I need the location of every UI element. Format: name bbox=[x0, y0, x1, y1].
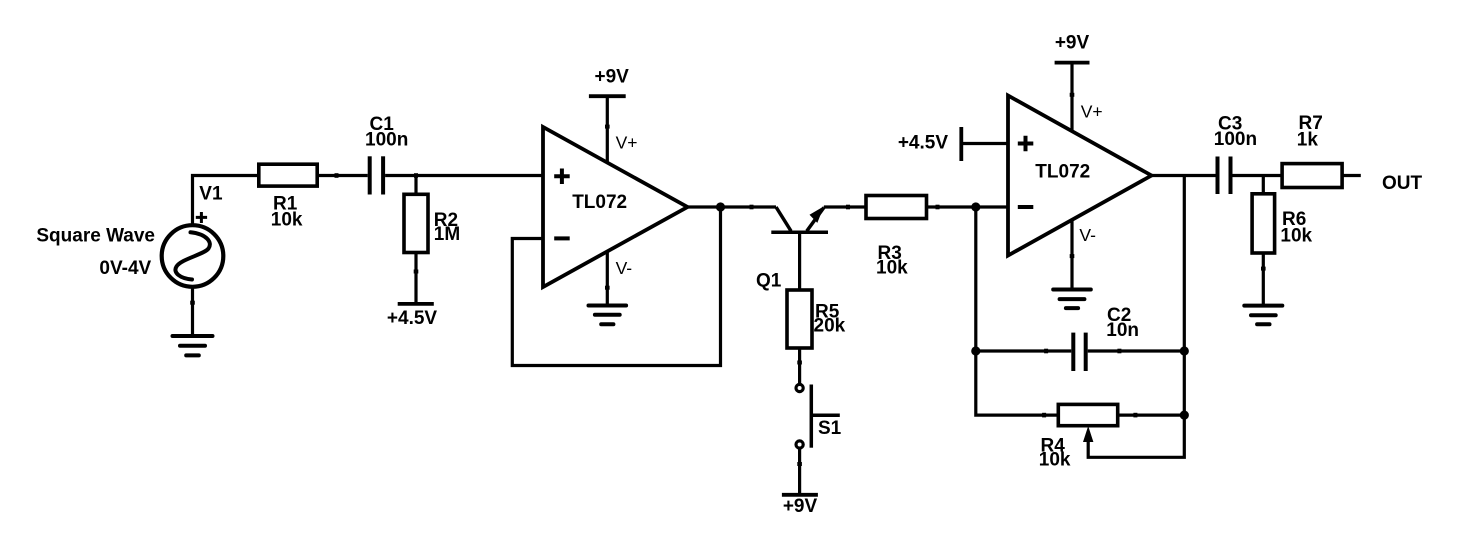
svg-text:S1: S1 bbox=[818, 418, 842, 439]
wire S1 to +9V bbox=[798, 448, 801, 495]
node U1 output junction bbox=[716, 202, 725, 211]
wire R7 to OUT bbox=[1342, 174, 1361, 177]
plus polarity mark of V1 bbox=[196, 212, 207, 223]
node C2 right junction bbox=[1180, 346, 1189, 355]
svg-text:+4.5V: +4.5V bbox=[898, 133, 949, 154]
ground under R6 bbox=[1244, 306, 1282, 325]
svg-text:Square Wave: Square Wave bbox=[36, 226, 155, 247]
ground under U1 bbox=[589, 306, 627, 325]
sine wave glyph inside V1 bbox=[175, 232, 209, 279]
capacitor C2 bbox=[1073, 333, 1085, 371]
feedback wire U1 output to minus input bbox=[512, 207, 720, 366]
svg-text:Q1: Q1 bbox=[756, 271, 782, 292]
wire U2 output to C3 bbox=[1152, 174, 1218, 177]
wire U2 minus node down the feedback column bbox=[976, 207, 1059, 415]
node C2 left junction bbox=[971, 346, 980, 355]
resistor R6 bbox=[1262, 176, 1265, 194]
svg-text:TL072: TL072 bbox=[1035, 162, 1090, 183]
resistor R5 bbox=[787, 290, 812, 348]
op-amp U2 TL072 bbox=[1008, 96, 1152, 256]
capacitor C1 bbox=[370, 156, 383, 194]
wire Q1 emitter to R3 bbox=[824, 205, 866, 208]
supply +4.5V at U2 plus input bbox=[959, 127, 963, 161]
wire V1 top to R1 bbox=[193, 176, 259, 226]
wire C3 to R7 bbox=[1233, 174, 1283, 177]
wire R3 to U2 minus input bbox=[927, 205, 1009, 208]
wire U1 V- to ground bbox=[606, 251, 609, 305]
U1 plus input mark bbox=[554, 169, 570, 185]
svg-text:10k: 10k bbox=[271, 210, 303, 231]
source V1 bbox=[162, 225, 224, 287]
svg-text:100n: 100n bbox=[365, 130, 408, 151]
svg-text:1k: 1k bbox=[1297, 130, 1319, 151]
svg-text:TL072: TL072 bbox=[572, 192, 627, 213]
wire U1 output bbox=[688, 205, 777, 208]
U1 minus input mark bbox=[554, 236, 570, 240]
svg-text:V-: V- bbox=[616, 258, 633, 278]
wire C1 to op-amp U1 plus input bbox=[385, 174, 543, 177]
resistor R1 bbox=[259, 164, 317, 186]
svg-text:OUT: OUT bbox=[1382, 173, 1423, 194]
svg-text:V-: V- bbox=[1079, 225, 1096, 245]
wire C2 branch bbox=[976, 349, 1185, 352]
svg-text:10k: 10k bbox=[1039, 450, 1071, 471]
svg-text:1M: 1M bbox=[434, 224, 460, 245]
svg-text:+9V: +9V bbox=[783, 496, 818, 517]
svg-text:+9V: +9V bbox=[595, 67, 630, 88]
svg-text:20k: 20k bbox=[814, 316, 846, 337]
wire V1 bottom to ground bbox=[191, 287, 194, 337]
ground under V1 bbox=[173, 336, 213, 355]
wire R2 to +4.5V bbox=[414, 253, 417, 304]
svg-text:+9V: +9V bbox=[1055, 32, 1090, 53]
wire U2 V- to ground bbox=[1070, 220, 1073, 290]
svg-text:+4.5V: +4.5V bbox=[387, 308, 438, 329]
resistor R3 bbox=[866, 196, 927, 219]
op-amp U1 TL072 bbox=[543, 127, 688, 287]
supply +4.5V under R2 bbox=[398, 302, 434, 306]
ground under U2 bbox=[1053, 290, 1091, 309]
transistor Q1 bbox=[771, 207, 828, 232]
potentiometer R4 bbox=[1058, 404, 1117, 425]
svg-text:10k: 10k bbox=[876, 258, 908, 279]
U2 plus input mark bbox=[1018, 136, 1034, 152]
resistor R7 bbox=[1282, 164, 1342, 188]
svg-text:100n: 100n bbox=[1214, 129, 1257, 150]
wire R1 to C1 bbox=[317, 174, 368, 177]
wire R6 to ground bbox=[1262, 253, 1265, 306]
capacitor C3 bbox=[1218, 157, 1231, 195]
wire U2 output feedback column right bbox=[1183, 176, 1186, 416]
supply +9V above U1 bbox=[606, 96, 609, 162]
svg-text:V+: V+ bbox=[1081, 101, 1103, 121]
switch S1 bbox=[796, 384, 803, 391]
svg-text:V1: V1 bbox=[199, 184, 223, 205]
wire Q1 base down to R5 bbox=[798, 232, 801, 290]
wire R5 to S1 bbox=[798, 348, 801, 384]
pin tick marks on wires bbox=[193, 93, 1264, 466]
U2 minus input mark bbox=[1018, 205, 1034, 209]
svg-text:10k: 10k bbox=[1280, 225, 1312, 246]
supply +9V under S1 bbox=[782, 493, 818, 497]
svg-text:10n: 10n bbox=[1106, 320, 1139, 341]
node R3 junction bbox=[971, 202, 980, 211]
svg-text:V+: V+ bbox=[616, 133, 638, 153]
node R4 right junction bbox=[1180, 411, 1189, 420]
svg-text:0V-4V: 0V-4V bbox=[99, 258, 151, 279]
R4 wiper arrow bbox=[1088, 420, 1184, 458]
supply +9V above U2 bbox=[1070, 63, 1073, 132]
resistor R2 bbox=[414, 176, 417, 195]
